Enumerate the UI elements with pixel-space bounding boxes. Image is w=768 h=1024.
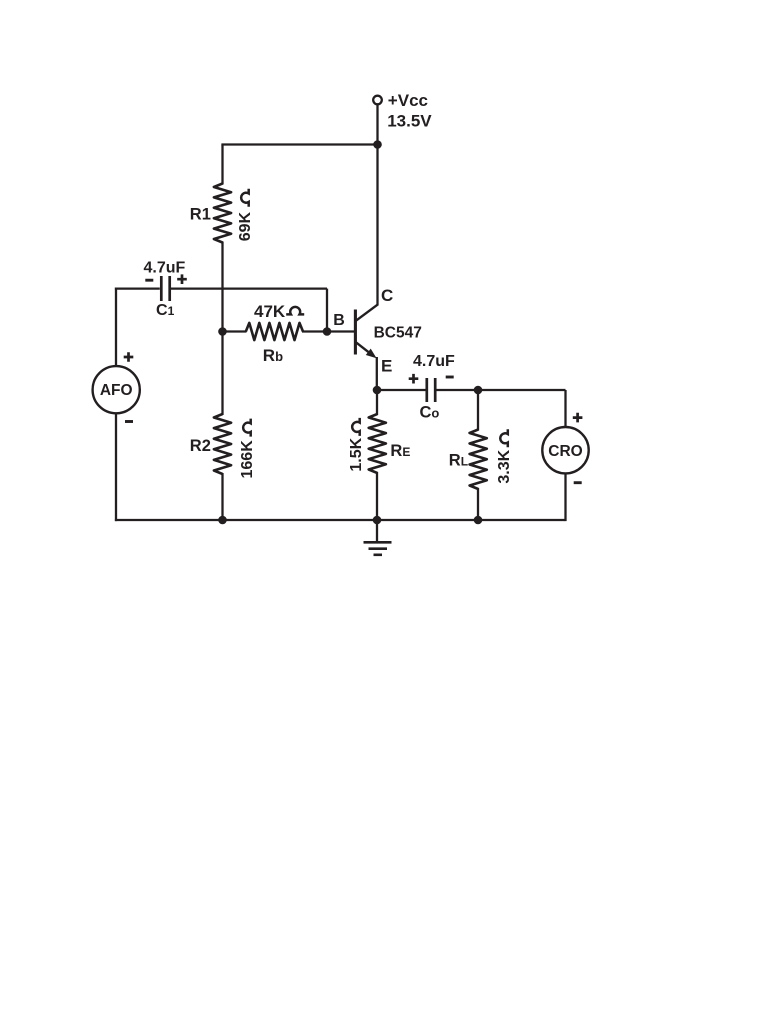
- svg-text:4.7uF: 4.7uF: [413, 353, 455, 370]
- svg-text:13.5V: 13.5V: [387, 112, 432, 131]
- svg-text:3.3K: 3.3K: [496, 449, 513, 483]
- svg-text:B: B: [333, 312, 345, 329]
- svg-text:47K: 47K: [254, 302, 286, 321]
- svg-text:RL: RL: [449, 451, 468, 469]
- svg-text:R2: R2: [190, 437, 211, 455]
- svg-text:166K: 166K: [239, 440, 256, 479]
- svg-text:BC547: BC547: [374, 324, 422, 341]
- svg-text:E: E: [381, 357, 392, 376]
- svg-text:4.7uF: 4.7uF: [144, 260, 186, 277]
- svg-text:Co: Co: [420, 404, 440, 422]
- svg-text:R1: R1: [190, 206, 211, 224]
- svg-text:CRO: CRO: [548, 443, 582, 460]
- svg-text:69K: 69K: [237, 212, 254, 242]
- svg-text:C1: C1: [156, 302, 175, 319]
- svg-text:AFO: AFO: [100, 382, 133, 399]
- svg-text:C: C: [381, 286, 393, 305]
- svg-text:RE: RE: [390, 442, 410, 460]
- svg-text:+Vcc: +Vcc: [388, 91, 428, 110]
- svg-text:Rb: Rb: [263, 346, 283, 365]
- svg-text:1.5K: 1.5K: [348, 437, 365, 471]
